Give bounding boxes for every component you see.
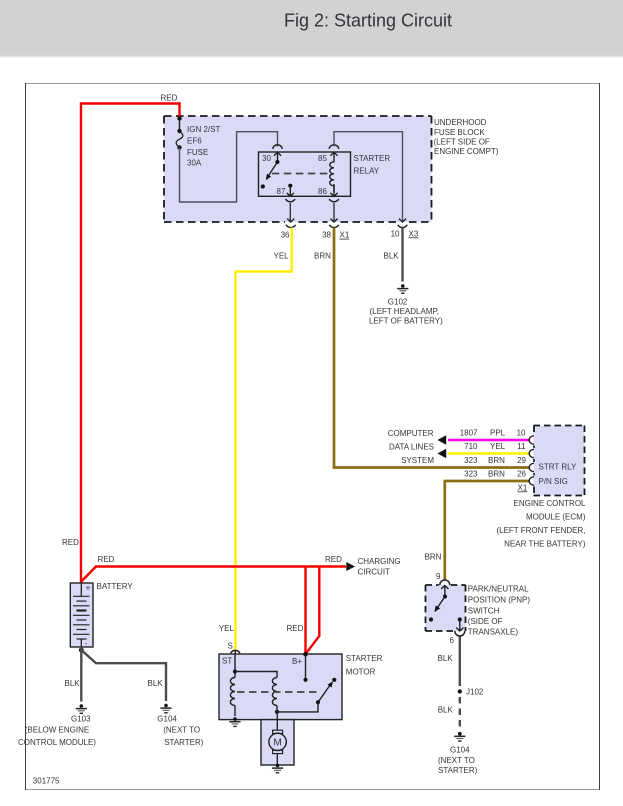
svg-text:YEL: YEL — [490, 442, 506, 451]
wire pin87 to conn36 — [289, 203, 291, 221]
svg-text:RED: RED — [161, 94, 178, 103]
svg-text:EF6: EF6 — [187, 136, 202, 145]
svg-text:85: 85 — [318, 154, 327, 163]
svg-text:(LEFT FRONT FENDER,: (LEFT FRONT FENDER, — [496, 526, 585, 535]
svg-text:BRN: BRN — [488, 470, 505, 479]
wire RED battery feed — [62, 94, 180, 583]
wire BRN relay86 to ECM29 — [314, 228, 529, 468]
ECM connector arcs — [529, 436, 534, 485]
svg-text:PPL: PPL — [490, 428, 506, 437]
ground G103 — [18, 704, 96, 747]
svg-text:RED: RED — [62, 538, 79, 547]
svg-text:BRN: BRN — [425, 552, 442, 561]
wire BLK battery to G104 left — [81, 650, 166, 701]
svg-text:G104: G104 — [157, 714, 177, 723]
svg-text:BLK: BLK — [384, 252, 400, 261]
svg-text:87: 87 — [277, 187, 286, 196]
svg-text:YEL: YEL — [219, 624, 235, 633]
ground G104 left — [157, 704, 203, 747]
wire fuse to relay pin30 — [180, 132, 278, 202]
svg-text:10: 10 — [517, 428, 526, 437]
svg-text:X1: X1 — [518, 483, 528, 492]
starter motor lower box — [261, 712, 294, 765]
connector 36 — [281, 219, 296, 240]
svg-text:FUSE: FUSE — [187, 148, 208, 157]
svg-text:(SIDE OF: (SIDE OF — [468, 617, 503, 626]
svg-text:(LEFT SIDE OF: (LEFT SIDE OF — [434, 137, 490, 146]
svg-text:G103: G103 — [71, 714, 91, 723]
svg-text:CIRCUIT: CIRCUIT — [358, 568, 391, 577]
svg-text:86: 86 — [318, 187, 327, 196]
banner — [0, 0, 623, 58]
svg-text:DATA LINES: DATA LINES — [389, 443, 434, 452]
ECM dashed box — [534, 426, 585, 496]
ground starter motor — [272, 764, 283, 773]
ECM caption — [496, 499, 586, 549]
svg-text:BLK: BLK — [438, 705, 454, 714]
wire BLK X3 to G102 — [384, 228, 403, 282]
svg-text:Fig 2: Starting Circuit: Fig 2: Starting Circuit — [284, 11, 452, 31]
svg-text:STARTER): STARTER) — [438, 766, 478, 775]
svg-text:MODULE (ECM): MODULE (ECM) — [526, 513, 586, 522]
ground G102 — [369, 284, 443, 326]
svg-text:X3: X3 — [409, 229, 419, 238]
svg-text:323: 323 — [464, 470, 478, 479]
COMPUTER DATA LINES SYSTEM — [388, 429, 435, 465]
wire RED battery branch to starter/charging — [81, 555, 346, 654]
svg-text:S: S — [228, 642, 233, 651]
svg-text:(BELOW ENGINE: (BELOW ENGINE — [25, 725, 89, 734]
svg-text:BRN: BRN — [488, 456, 505, 465]
battery — [70, 582, 133, 648]
wire pin86 to conn38 — [333, 203, 335, 221]
svg-text:30: 30 — [262, 154, 271, 163]
PNP switch dashed box — [426, 585, 531, 637]
svg-text:UNDERHOOD: UNDERHOOD — [434, 118, 487, 127]
svg-text:LEFT OF BATTERY): LEFT OF BATTERY) — [369, 317, 443, 326]
svg-text:BLK: BLK — [438, 654, 454, 663]
wire YEL 710 — [448, 442, 529, 453]
motor M symbol — [269, 730, 286, 765]
svg-text:MOTOR: MOTOR — [346, 667, 376, 676]
svg-text:323: 323 — [464, 456, 478, 465]
starter internals — [230, 654, 336, 716]
svg-text:CHARGING: CHARGING — [358, 557, 401, 566]
svg-text:YEL: YEL — [274, 252, 290, 261]
svg-text:M: M — [273, 738, 282, 749]
arrow to data lines (YEL) — [438, 449, 447, 459]
fuse IGN 2/ST EF6 30A — [176, 125, 220, 168]
svg-text:301775: 301775 — [33, 777, 60, 786]
PNP top connector pin 9 — [440, 580, 450, 597]
svg-text:B+: B+ — [292, 657, 302, 666]
svg-text:COMPUTER: COMPUTER — [388, 429, 434, 438]
svg-text:SYSTEM: SYSTEM — [401, 456, 434, 465]
UNDERHOOD FUSE BLOCK dashed box — [164, 116, 499, 222]
svg-text:IGN 2/ST: IGN 2/ST — [187, 125, 220, 134]
svg-text:ENGINE CONTROL: ENGINE CONTROL — [513, 499, 586, 508]
svg-text:(NEXT TO: (NEXT TO — [438, 756, 475, 765]
connector 38 X1 — [322, 219, 350, 240]
node battery negative — [79, 648, 84, 653]
relay switch — [261, 160, 280, 189]
svg-text:G102: G102 — [388, 298, 408, 307]
svg-text:STARTER: STARTER — [354, 154, 391, 163]
ground G104 right — [438, 732, 478, 775]
starter S connector — [228, 642, 240, 655]
svg-text:RED: RED — [325, 555, 342, 564]
relay coil — [330, 153, 334, 193]
svg-text:710: 710 — [464, 442, 478, 451]
wire BLK battery to G103 — [65, 647, 82, 702]
svg-text:ST: ST — [222, 657, 232, 666]
svg-text:26: 26 — [517, 470, 526, 479]
svg-text:29: 29 — [517, 456, 526, 465]
svg-text:30A: 30A — [187, 159, 202, 168]
svg-text:RED: RED — [287, 624, 304, 633]
node B+ junction — [303, 652, 308, 657]
arrow to data lines (PPL) — [438, 435, 447, 445]
connector pin 85 — [318, 145, 339, 163]
svg-text:STRT RLY: STRT RLY — [539, 463, 577, 472]
svg-text:ENGINE COMPT): ENGINE COMPT) — [434, 147, 499, 156]
svg-text:-: - — [85, 638, 88, 648]
CHARGING CIRCUIT caption — [358, 557, 401, 577]
arrow charging circuit — [346, 562, 355, 571]
starter motor box — [219, 654, 383, 720]
svg-text:(LEFT HEADLAMP,: (LEFT HEADLAMP, — [370, 307, 440, 316]
svg-text:9: 9 — [436, 572, 441, 581]
connector 10 X3 — [391, 219, 419, 239]
svg-text:PARK/NEUTRAL: PARK/NEUTRAL — [468, 585, 529, 594]
svg-text:SWITCH: SWITCH — [468, 606, 500, 615]
connector pin 30 — [262, 145, 282, 163]
svg-text:36: 36 — [281, 231, 290, 240]
svg-text:RED: RED — [98, 555, 115, 564]
wire BLK dashed J102 to G104 — [438, 697, 460, 728]
svg-text:+: + — [86, 583, 91, 593]
pin 86 arrow + connector — [318, 184, 339, 202]
svg-text:BLK: BLK — [148, 679, 164, 688]
wire BLK PNP to J102 — [438, 637, 460, 687]
svg-text:38: 38 — [322, 231, 331, 240]
ground starter field — [229, 717, 240, 726]
node fuse top junction — [177, 116, 181, 120]
wire YEL relay87 to starter S — [219, 228, 292, 651]
svg-text:(NEXT TO: (NEXT TO — [163, 725, 200, 734]
svg-text:BLK: BLK — [65, 679, 81, 688]
wire BRN 323 pin29 labels — [464, 456, 526, 465]
svg-text:FUSE BLOCK: FUSE BLOCK — [434, 128, 485, 137]
starter relay box — [259, 152, 391, 196]
pin 87 wire arrow + connector — [277, 184, 296, 202]
svg-text:J102: J102 — [466, 688, 484, 697]
svg-text:TRANSAXLE): TRANSAXLE) — [468, 627, 519, 636]
svg-text:STARTER): STARTER) — [164, 738, 204, 747]
svg-text:CONTROL MODULE): CONTROL MODULE) — [18, 738, 96, 747]
svg-text:RELAY: RELAY — [354, 167, 380, 176]
svg-text:X1: X1 — [340, 231, 350, 240]
svg-text:10: 10 — [391, 229, 400, 238]
svg-text:11: 11 — [517, 442, 526, 451]
svg-text:6: 6 — [450, 636, 455, 645]
svg-text:1807: 1807 — [460, 428, 478, 437]
svg-text:BATTERY: BATTERY — [97, 582, 134, 591]
svg-text:POSITION (PNP): POSITION (PNP) — [468, 595, 531, 604]
svg-text:STARTER: STARTER — [346, 654, 383, 663]
PNP switch arm — [429, 594, 447, 621]
svg-text:P/N SIG: P/N SIG — [539, 477, 568, 486]
node J102 — [458, 688, 484, 697]
svg-text:BRN: BRN — [314, 252, 331, 261]
wire pin85 to X3 — [334, 132, 403, 221]
svg-text:G104: G104 — [450, 746, 470, 755]
PNP output pin 6 — [450, 617, 465, 644]
wire BRN 323 pin26 to PNP — [445, 470, 529, 580]
svg-text:NEAR THE BATTERY): NEAR THE BATTERY) — [504, 540, 586, 549]
wire PPL — [448, 428, 529, 440]
